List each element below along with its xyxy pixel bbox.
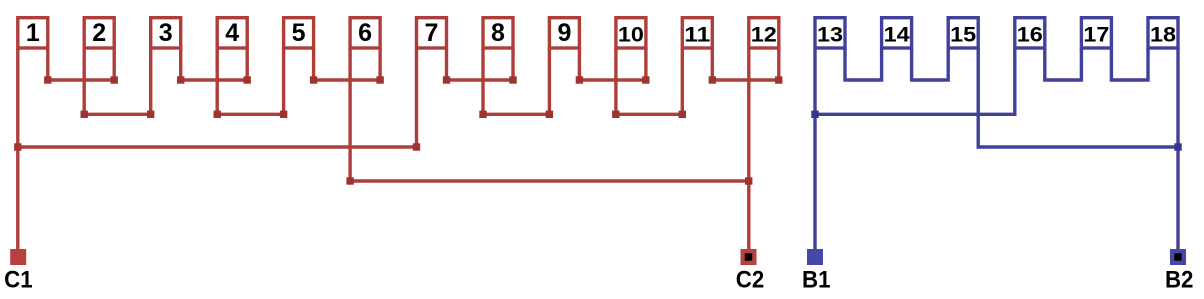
coil 4 right lead wire — [245, 48, 248, 80]
svg-text:1: 1 — [26, 19, 40, 47]
junction coil10R — [642, 76, 649, 83]
coil 3 left lead wire — [149, 48, 152, 114]
svg-text:C2: C2 — [736, 267, 765, 294]
coil 1 left lead wire down to C1 — [16, 48, 19, 250]
coil 12 winding box — [749, 18, 779, 48]
junction coil9L — [546, 111, 553, 118]
wire link coil1R-coil2R — [48, 78, 114, 81]
svg-text:13: 13 — [817, 22, 843, 46]
wire link coil10L-coil11L — [616, 113, 682, 116]
svg-text:2: 2 — [92, 19, 106, 47]
wire U-link coil14R-coil15L — [912, 48, 949, 80]
wire link coil7R-coil8R — [447, 78, 514, 81]
coil 11 winding box — [682, 18, 712, 48]
junction C1 bus left — [14, 143, 21, 150]
coil 10 right lead wire — [644, 48, 647, 80]
coil 13 left lead wire down to B1 — [813, 48, 816, 250]
junction coil9R — [576, 76, 583, 83]
junction coil8R — [509, 76, 516, 83]
coil 10 winding box — [616, 18, 646, 48]
svg-text:7: 7 — [425, 19, 439, 47]
junction coil8L — [479, 111, 486, 118]
coil 12 left lead wire down to C2 — [747, 48, 750, 250]
coil 18 right lead wire down to B2 — [1176, 48, 1179, 250]
coil 1 winding box — [18, 18, 48, 48]
wire C1 bus coil1L-coil7L — [18, 145, 417, 148]
coil 6 right lead wire — [378, 48, 381, 80]
junction C1 bus right at coil7L — [413, 143, 420, 150]
coil 9 winding box — [549, 18, 579, 48]
coil 2 winding box — [84, 18, 114, 48]
coil 5 right lead wire — [312, 48, 315, 80]
svg-text:C1: C1 — [4, 267, 33, 294]
coil 2 right lead wire — [112, 48, 115, 80]
coil 14 winding box — [882, 18, 912, 48]
junction coil4L — [214, 111, 221, 118]
junction coil4R — [244, 76, 251, 83]
wire link coil8L-coil9L — [483, 113, 549, 116]
svg-text:16: 16 — [1017, 22, 1043, 46]
coil 17 winding box — [1081, 18, 1111, 48]
coil 16 winding box — [1015, 18, 1045, 48]
coil 4 left lead wire — [215, 48, 218, 114]
coil 11 right lead wire — [711, 48, 714, 80]
coil 1 right lead wire — [46, 48, 49, 80]
junction coil1R — [44, 76, 51, 83]
coil 6 left lead wire down to lower bus — [348, 48, 351, 181]
coil 15 winding box — [948, 18, 978, 48]
terminal B1 — [807, 249, 823, 265]
svg-text:3: 3 — [159, 19, 173, 47]
junction coil6R — [376, 76, 383, 83]
svg-text:4: 4 — [225, 19, 239, 47]
svg-text:B1: B1 — [802, 267, 831, 294]
coil 12 right lead wire — [777, 48, 780, 80]
coil 7 right lead wire — [445, 48, 448, 80]
junction B2 net at coil18R — [1174, 143, 1181, 150]
junction C2 bus left at coil6L — [346, 177, 353, 184]
terminal B2 — [1170, 249, 1186, 265]
wire B1 bus coil13L-coil16L — [815, 48, 1015, 114]
svg-text:5: 5 — [292, 19, 306, 47]
coil 10 left lead wire — [614, 48, 617, 114]
junction C2 bus right at coil12L — [745, 177, 752, 184]
svg-text:10: 10 — [618, 22, 644, 46]
junction coil5R — [310, 76, 317, 83]
wire link coil4L-coil5L — [217, 113, 283, 116]
junction coil3L — [147, 111, 154, 118]
svg-text:9: 9 — [557, 19, 571, 47]
wire U-link coil13R-coil14L — [845, 48, 882, 80]
coil 5 winding box — [284, 18, 314, 48]
coil 6 winding box — [350, 18, 380, 48]
junction coil5L — [280, 111, 287, 118]
coil 8 winding box — [483, 18, 513, 48]
coil 3 winding box — [151, 18, 181, 48]
svg-text:B2: B2 — [1165, 267, 1194, 294]
wire link coil2L-coil3L — [84, 113, 151, 116]
coil 2 left lead wire — [82, 48, 85, 114]
coil 9 left lead wire — [548, 48, 551, 114]
coil 9 right lead wire — [578, 48, 581, 80]
svg-text:8: 8 — [491, 19, 505, 47]
svg-text:6: 6 — [358, 19, 372, 47]
coil 4 winding box — [217, 18, 247, 48]
junction coil12R — [775, 76, 782, 83]
wire U-link coil17R-coil18L — [1111, 48, 1148, 80]
wire U-link coil16R-coil17L — [1045, 48, 1082, 80]
wire link coil9R-coil10R — [579, 78, 646, 81]
wire C2 bus coil6L-coil12L — [350, 179, 749, 182]
svg-text:14: 14 — [884, 22, 910, 46]
coil 13 winding box — [815, 18, 845, 48]
junction coil2R — [111, 76, 118, 83]
terminal C2 — [741, 249, 757, 265]
coil 18 winding box — [1148, 18, 1178, 48]
coil 11 left lead wire — [681, 48, 684, 114]
junction coil11L — [679, 111, 686, 118]
svg-text:12: 12 — [751, 22, 777, 46]
coil 3 right lead wire — [179, 48, 182, 80]
svg-text:18: 18 — [1150, 22, 1176, 46]
wire link coil11R-coil12R — [712, 78, 779, 81]
junction coil7R — [443, 76, 450, 83]
svg-text:15: 15 — [950, 22, 976, 46]
junction coil2L — [81, 111, 88, 118]
coil 8 right lead wire — [511, 48, 514, 80]
junction coil10L — [612, 111, 619, 118]
terminal C1 — [10, 249, 26, 265]
svg-text:17: 17 — [1083, 22, 1109, 46]
coil 7 left lead wire down to upper bus — [415, 48, 418, 147]
coil 8 left lead wire — [481, 48, 484, 114]
coil 7 winding box — [417, 18, 447, 48]
svg-text:11: 11 — [684, 22, 710, 46]
junction B1 bus at coil13L — [811, 111, 818, 118]
coil 5 left lead wire — [282, 48, 285, 114]
junction coil11R — [709, 76, 716, 83]
junction coil3R — [177, 76, 184, 83]
wire link coil3R-coil4R — [181, 78, 248, 81]
wire coil15R down and across to B2 net — [978, 48, 1178, 147]
wire link coil5R-coil6R — [314, 78, 381, 81]
